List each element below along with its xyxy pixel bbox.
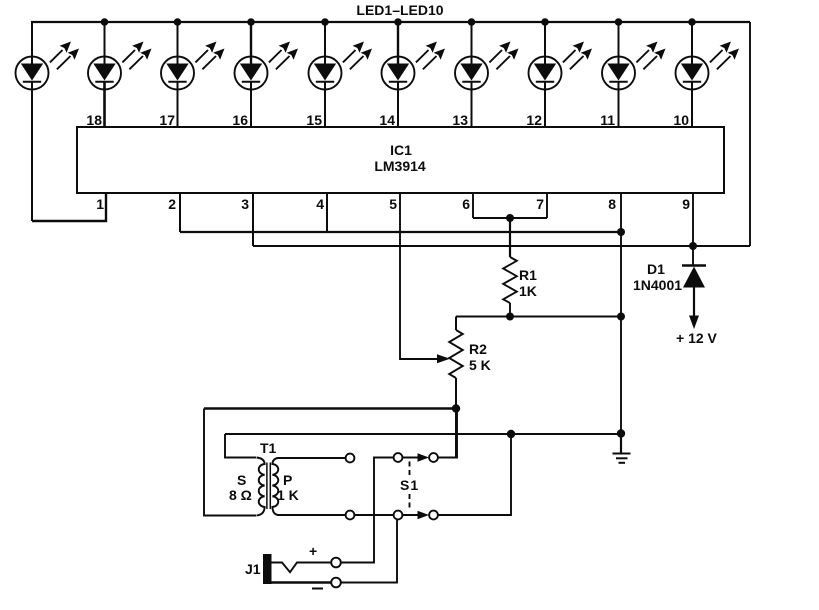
wire pin1 bracket to LED1 xyxy=(32,193,106,221)
svg-text:12: 12 xyxy=(526,112,542,128)
svg-text:S: S xyxy=(237,472,246,488)
wire pin2 horizontal net to pin8 xyxy=(180,231,624,233)
svg-text:J1: J1 xyxy=(245,561,261,577)
svg-text:1K: 1K xyxy=(519,283,537,299)
wire primary bottom to S1 lower left xyxy=(355,514,394,516)
svg-text:5 K: 5 K xyxy=(469,357,491,373)
ground symbol xyxy=(613,434,631,463)
svg-text:S1: S1 xyxy=(400,477,419,493)
diode D1 1N4001 xyxy=(682,266,706,288)
svg-text:+: + xyxy=(309,543,317,559)
wire pin8 down to ground xyxy=(620,193,622,434)
svg-text:1 K: 1 K xyxy=(277,487,299,503)
svg-text:2: 2 xyxy=(168,196,176,212)
potentiometer R2 5K xyxy=(437,317,463,458)
node junction S1 lower / ground net xyxy=(507,430,515,438)
svg-text:R2: R2 xyxy=(469,341,487,357)
node junction R2 bottom xyxy=(452,404,460,412)
wire S1 upper to R2 bottom node xyxy=(438,409,457,458)
wire pin6-pin7 jumper xyxy=(473,217,547,219)
svg-text:14: 14 xyxy=(379,112,395,128)
wire J1 plus up to S1 upper left xyxy=(341,458,394,563)
switch S1 upper pole xyxy=(394,453,438,462)
svg-text:15: 15 xyxy=(306,112,322,128)
wire R1 bottom horizontal to pin8 net xyxy=(456,316,621,318)
LED LED6 xyxy=(382,18,446,127)
wire ground net corner to secondary top xyxy=(225,434,256,458)
svg-text:10: 10 xyxy=(673,112,689,128)
svg-text:9: 9 xyxy=(682,196,690,212)
svg-text:7: 7 xyxy=(536,196,544,212)
svg-text:R1: R1 xyxy=(519,267,537,283)
svg-text:5: 5 xyxy=(389,196,397,212)
wire S1 lower to ground net xyxy=(438,434,511,515)
wire pin5 down to R2 wiper xyxy=(400,193,438,359)
wire primary top lead xyxy=(277,457,346,459)
svg-text:+ 12 V: + 12 V xyxy=(676,330,718,346)
wire D1 to +12V arrow xyxy=(689,288,699,330)
svg-text:8 Ω: 8 Ω xyxy=(229,487,252,503)
wire pin7 stub xyxy=(546,193,548,218)
node junction ground corner xyxy=(617,429,625,437)
LED LED2 xyxy=(88,18,152,127)
transformer T1 xyxy=(257,458,279,516)
switch S1 lower pole xyxy=(394,511,438,520)
svg-text:T1: T1 xyxy=(260,440,277,456)
svg-text:4: 4 xyxy=(316,196,324,212)
LED LED7 xyxy=(455,18,519,127)
svg-text:16: 16 xyxy=(232,112,248,128)
terminal J1 minus xyxy=(331,578,341,588)
svg-text:8: 8 xyxy=(608,196,616,212)
node junction pin6/7 to R1 xyxy=(506,214,514,222)
svg-text:18: 18 xyxy=(86,112,102,128)
svg-text:11: 11 xyxy=(600,112,615,128)
svg-text:LM3914: LM3914 xyxy=(374,158,426,174)
wire pin3 horizontal net to right edge xyxy=(253,245,750,247)
wire pin4 stub xyxy=(326,193,328,233)
svg-text:P: P xyxy=(283,472,292,488)
LED LED8 xyxy=(529,18,593,127)
node junction pin2 net / pin8 xyxy=(617,228,625,236)
switch S1 gang dashed link xyxy=(409,462,411,512)
LED LED10 xyxy=(676,18,740,127)
terminal primary top xyxy=(346,454,355,463)
svg-text:LED1–LED10: LED1–LED10 xyxy=(356,2,443,18)
svg-text:D1: D1 xyxy=(647,261,665,277)
node junction pin9 / pin3 net xyxy=(689,242,697,250)
jack J1 xyxy=(263,554,332,584)
resistor R1 1K xyxy=(503,218,517,317)
wire primary bottom lead xyxy=(277,514,346,516)
LED LED3 xyxy=(161,18,225,127)
svg-text:1N4001: 1N4001 xyxy=(633,277,682,293)
LED LED1 xyxy=(16,22,80,221)
wire pin3 stub xyxy=(252,193,254,246)
wire left vertical down to secondary bottom xyxy=(204,409,256,516)
LED LED5 xyxy=(309,18,373,127)
LED LED9 xyxy=(602,18,666,127)
IC IC1 LM3914 box xyxy=(77,127,724,193)
svg-text:6: 6 xyxy=(462,196,470,212)
svg-text:IC1: IC1 xyxy=(390,142,412,158)
terminal J1 plus xyxy=(331,558,341,568)
LED LED4 xyxy=(235,18,299,127)
terminal primary bottom xyxy=(346,511,355,520)
wire pin6 stub xyxy=(472,193,474,218)
wire pin2 stub xyxy=(179,193,181,232)
node junction at pin8 wire xyxy=(617,313,625,321)
wire top supply bus xyxy=(31,21,750,23)
wire right edge from bus down to pin3 net xyxy=(749,22,751,246)
svg-text:3: 3 xyxy=(241,196,249,212)
wire ground net horizontal xyxy=(225,433,621,435)
wire J1 minus up to S1 lower left xyxy=(341,520,397,583)
svg-text:13: 13 xyxy=(452,112,468,128)
wire R2 bottom horizontal to transformer secondary xyxy=(204,407,456,410)
svg-text:1: 1 xyxy=(96,196,104,212)
node junction R1 bottom xyxy=(506,313,514,321)
wire pin9 stub down to D1 xyxy=(692,193,694,265)
label minus terminal xyxy=(312,588,323,590)
svg-text:17: 17 xyxy=(159,112,175,128)
